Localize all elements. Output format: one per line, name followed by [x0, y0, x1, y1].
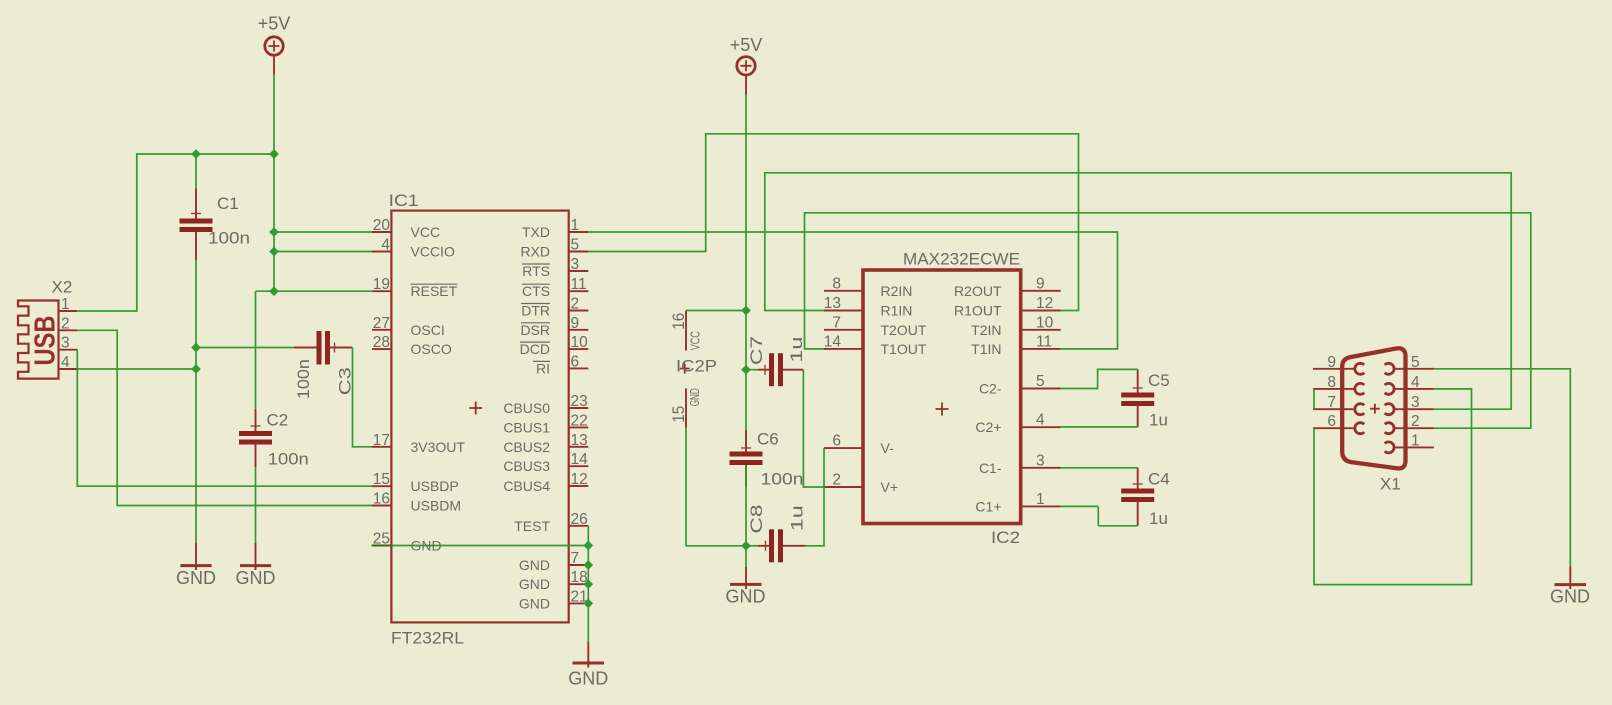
svg-text:C1-: C1-	[979, 460, 1002, 476]
svg-text:26: 26	[571, 511, 588, 528]
svg-text:DSR: DSR	[520, 322, 550, 338]
svg-text:5: 5	[1036, 373, 1045, 390]
svg-text:14: 14	[824, 333, 842, 350]
svg-text:9: 9	[1327, 354, 1336, 371]
svg-text:IC1: IC1	[389, 191, 419, 210]
svg-text:28: 28	[373, 334, 390, 351]
svg-text:3V3OUT: 3V3OUT	[411, 439, 466, 455]
svg-text:9: 9	[1036, 275, 1045, 292]
svg-text:GND: GND	[519, 576, 550, 592]
svg-text:1u: 1u	[788, 505, 807, 531]
svg-text:USBDP: USBDP	[411, 478, 459, 494]
svg-text:1: 1	[1411, 432, 1420, 449]
svg-text:CBUS0: CBUS0	[503, 400, 550, 416]
svg-text:T1IN: T1IN	[971, 341, 1001, 357]
svg-text:CBUS1: CBUS1	[503, 419, 550, 435]
svg-text:V+: V+	[881, 479, 899, 495]
svg-text:RXD: RXD	[520, 244, 550, 260]
svg-text:GND: GND	[236, 568, 276, 588]
svg-text:1: 1	[61, 296, 70, 313]
svg-text:T2IN: T2IN	[971, 322, 1001, 338]
svg-text:13: 13	[824, 295, 841, 312]
svg-text:4: 4	[61, 354, 70, 371]
svg-text:10: 10	[571, 334, 589, 351]
svg-text:14: 14	[571, 451, 589, 468]
svg-text:GND: GND	[519, 557, 550, 573]
svg-text:12: 12	[571, 471, 588, 488]
svg-text:VCC: VCC	[688, 331, 703, 350]
svg-text:R2OUT: R2OUT	[954, 283, 1002, 299]
svg-text:8: 8	[1327, 374, 1336, 391]
svg-text:23: 23	[571, 393, 588, 410]
svg-text:C8: C8	[747, 505, 766, 534]
svg-text:X2: X2	[52, 278, 73, 297]
svg-text:4: 4	[1036, 412, 1045, 429]
svg-text:4: 4	[1411, 374, 1420, 391]
svg-text:C2+: C2+	[975, 419, 1001, 435]
svg-text:C2-: C2-	[979, 381, 1002, 397]
svg-text:TEST: TEST	[514, 518, 550, 534]
svg-text:1: 1	[571, 217, 580, 234]
svg-text:7: 7	[832, 314, 841, 331]
svg-text:X1: X1	[1380, 475, 1401, 494]
svg-text:9: 9	[571, 315, 580, 332]
svg-text:+5V: +5V	[258, 14, 291, 34]
svg-text:VCCIO: VCCIO	[411, 244, 455, 260]
svg-text:7: 7	[1327, 394, 1336, 411]
svg-text:USB: USB	[30, 316, 62, 366]
svg-text:16: 16	[669, 313, 688, 330]
svg-text:6: 6	[571, 353, 580, 370]
svg-text:C5: C5	[1148, 371, 1170, 390]
svg-text:C1+: C1+	[975, 498, 1001, 514]
svg-text:IC2: IC2	[991, 528, 1020, 547]
svg-text:11: 11	[1036, 333, 1052, 350]
svg-text:22: 22	[571, 412, 588, 429]
svg-text:RTS: RTS	[522, 263, 550, 279]
svg-text:15: 15	[373, 471, 390, 488]
svg-text:25: 25	[373, 531, 390, 548]
svg-text:4: 4	[381, 237, 390, 254]
svg-text:GND: GND	[568, 669, 608, 689]
svg-text:7: 7	[571, 550, 580, 567]
svg-text:VCC: VCC	[411, 224, 441, 240]
svg-text:18: 18	[571, 569, 588, 586]
svg-text:GND: GND	[726, 587, 766, 607]
svg-text:IC2P: IC2P	[676, 357, 717, 376]
svg-text:1: 1	[1036, 491, 1045, 508]
svg-text:1u: 1u	[1149, 411, 1168, 430]
svg-text:27: 27	[373, 315, 390, 332]
svg-text:FT232RL: FT232RL	[391, 629, 464, 648]
svg-text:16: 16	[373, 491, 390, 508]
svg-text:GND: GND	[176, 568, 216, 588]
svg-text:T1OUT: T1OUT	[881, 341, 927, 357]
svg-text:100n: 100n	[208, 229, 250, 248]
svg-text:GND: GND	[411, 538, 442, 554]
svg-text:2: 2	[571, 296, 580, 313]
svg-text:21: 21	[571, 588, 588, 605]
svg-text:2: 2	[832, 472, 841, 489]
svg-text:GND: GND	[1550, 587, 1590, 607]
svg-text:15: 15	[669, 406, 688, 423]
svg-text:100n: 100n	[761, 470, 804, 489]
svg-text:6: 6	[1327, 413, 1336, 430]
svg-text:CBUS2: CBUS2	[503, 439, 550, 455]
svg-text:OSCI: OSCI	[411, 322, 445, 338]
svg-text:RI: RI	[536, 360, 550, 376]
svg-text:T2OUT: T2OUT	[881, 322, 927, 338]
svg-text:C6: C6	[757, 430, 779, 449]
svg-text:12: 12	[1036, 295, 1053, 312]
svg-text:CBUS3: CBUS3	[503, 458, 550, 474]
svg-text:3: 3	[1411, 394, 1420, 411]
svg-text:5: 5	[1411, 354, 1420, 371]
svg-text:19: 19	[373, 276, 390, 293]
svg-text:11: 11	[571, 276, 587, 293]
svg-text:17: 17	[373, 432, 390, 449]
svg-text:TXD: TXD	[522, 224, 550, 240]
svg-text:C7: C7	[747, 336, 766, 365]
svg-text:MAX232ECWE: MAX232ECWE	[903, 250, 1020, 269]
svg-text:100n: 100n	[268, 450, 309, 469]
svg-text:3: 3	[571, 256, 580, 273]
svg-text:RESET: RESET	[411, 283, 458, 299]
svg-text:3: 3	[1036, 452, 1045, 469]
svg-text:3: 3	[61, 335, 70, 352]
svg-text:8: 8	[832, 275, 841, 292]
svg-text:2: 2	[61, 315, 70, 332]
svg-text:R1OUT: R1OUT	[954, 303, 1002, 319]
svg-text:6: 6	[832, 433, 841, 450]
svg-text:+5V: +5V	[730, 35, 763, 55]
svg-text:100n: 100n	[294, 359, 313, 399]
svg-text:1u: 1u	[787, 337, 806, 363]
svg-text:C4: C4	[1148, 470, 1170, 489]
svg-text:C1: C1	[217, 194, 239, 213]
svg-text:13: 13	[571, 432, 588, 449]
svg-text:GND: GND	[519, 595, 550, 611]
svg-text:DCD: DCD	[520, 341, 550, 357]
svg-text:R2IN: R2IN	[881, 283, 913, 299]
svg-text:GND: GND	[687, 388, 702, 406]
svg-text:C2: C2	[267, 411, 289, 430]
svg-text:DTR: DTR	[521, 303, 550, 319]
svg-text:2: 2	[1411, 413, 1420, 430]
svg-text:10: 10	[1036, 314, 1054, 331]
svg-text:OSCO: OSCO	[411, 341, 452, 357]
svg-text:20: 20	[373, 217, 391, 234]
svg-text:C3: C3	[336, 367, 355, 395]
svg-text:USBDM: USBDM	[411, 498, 462, 514]
svg-text:R1IN: R1IN	[881, 303, 913, 319]
svg-text:CTS: CTS	[522, 283, 550, 299]
svg-text:CBUS4: CBUS4	[503, 478, 550, 494]
svg-text:1u: 1u	[1149, 509, 1168, 528]
svg-text:V-: V-	[881, 440, 895, 456]
svg-text:5: 5	[571, 237, 580, 254]
